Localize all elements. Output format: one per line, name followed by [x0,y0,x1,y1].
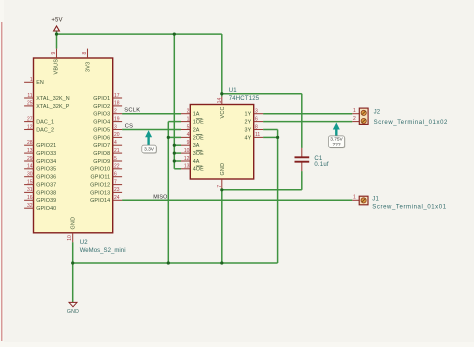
svg-text:4OE: 4OE [193,167,204,173]
svg-text:2: 2 [353,116,356,122]
svg-text:13: 13 [184,164,190,170]
svg-text:15: 15 [27,179,33,185]
svg-text:GPIO1: GPIO1 [93,96,110,102]
svg-text:16: 16 [27,195,33,201]
svg-text:GPIO14: GPIO14 [90,198,110,204]
svg-text:3.3V: 3.3V [144,147,155,153]
svg-text:27: 27 [27,116,33,122]
svg-text:30: 30 [27,172,33,178]
svg-text:4A: 4A [193,159,200,165]
svg-text:23: 23 [114,187,120,193]
svg-text:10: 10 [67,235,73,241]
svg-text:GPIO11: GPIO11 [91,175,111,181]
svg-text:7: 7 [217,185,223,188]
svg-text:GPIO36: GPIO36 [36,175,56,181]
svg-text:3.75V: 3.75V [330,137,343,143]
svg-text:VCC: VCC [220,106,226,118]
svg-text:GPIO5: GPIO5 [93,127,110,133]
svg-text:11: 11 [27,93,32,99]
svg-text:GPIO38: GPIO38 [36,190,56,196]
svg-text:1: 1 [353,108,356,114]
svg-text:20: 20 [114,132,120,138]
svg-text:3Y: 3Y [245,127,252,133]
svg-text:6: 6 [114,172,117,178]
svg-text:GPIO8: GPIO8 [93,151,110,157]
svg-text:GND: GND [220,163,226,176]
svg-text:CS: CS [125,123,134,129]
svg-text:XTAL_32K_N: XTAL_32K_N [36,96,70,102]
svg-text:Screw_Terminal_01x02: Screw_Terminal_01x02 [374,120,448,126]
svg-text:GPIO21: GPIO21 [36,143,56,149]
svg-text:EN: EN [36,80,44,86]
svg-text:DAC_1: DAC_1 [36,120,54,126]
svg-text:???: ??? [332,142,340,148]
svg-text:21: 21 [114,148,120,154]
svg-text:31: 31 [27,187,33,193]
svg-text:J2: J2 [374,110,381,116]
svg-text:XTAL_32K_P: XTAL_32K_P [36,104,70,110]
svg-text:+5V: +5V [51,17,62,23]
svg-text:17: 17 [114,93,120,99]
svg-text:GPIO34: GPIO34 [36,159,56,165]
svg-text:14: 14 [217,98,223,104]
svg-text:2Y: 2Y [245,120,252,126]
svg-text:1: 1 [30,77,33,83]
svg-text:9: 9 [187,140,190,146]
svg-text:J1: J1 [372,197,379,203]
svg-text:22: 22 [114,164,120,170]
svg-text:SCLK: SCLK [124,108,140,114]
svg-text:GND: GND [67,309,79,315]
svg-text:0.1uf: 0.1uf [314,162,328,168]
svg-text:14: 14 [27,164,33,170]
svg-text:29: 29 [27,156,33,162]
svg-text:3A: 3A [193,143,200,149]
svg-text:25: 25 [27,101,33,107]
svg-text:GPIO4: GPIO4 [93,120,110,126]
svg-text:13: 13 [27,148,33,154]
svg-text:GPIO6: GPIO6 [93,135,110,141]
svg-text:4Y: 4Y [245,135,252,141]
svg-text:3: 3 [114,124,117,130]
svg-text:GPIO7: GPIO7 [93,143,110,149]
svg-text:6: 6 [255,116,258,122]
svg-text:VBUS: VBUS [54,59,60,75]
svg-text:Screw_Terminal_01x01: Screw_Terminal_01x01 [372,204,446,210]
svg-text:10: 10 [184,148,190,154]
svg-text:4: 4 [114,140,117,146]
svg-text:GPIO9: GPIO9 [93,159,110,165]
svg-text:2: 2 [114,109,117,115]
svg-text:WeMos_S2_mini: WeMos_S2_mini [80,248,126,254]
svg-text:GPIO33: GPIO33 [36,151,56,157]
svg-text:MISO: MISO [153,194,167,200]
svg-text:8: 8 [255,124,258,130]
svg-text:5: 5 [114,156,117,162]
svg-text:C1: C1 [314,156,323,162]
svg-text:2: 2 [187,109,190,115]
svg-text:4: 4 [187,132,190,138]
svg-text:1: 1 [353,195,356,201]
svg-text:28: 28 [27,140,33,146]
svg-text:1Y: 1Y [245,112,252,118]
svg-text:8: 8 [82,52,88,55]
svg-text:19: 19 [114,116,120,122]
svg-text:1: 1 [187,116,190,122]
svg-text:12: 12 [27,124,33,130]
svg-text:GPIO37: GPIO37 [36,183,56,189]
svg-text:11: 11 [255,132,260,138]
svg-text:GPIO13: GPIO13 [90,190,110,196]
svg-text:12: 12 [184,156,190,162]
svg-text:3: 3 [255,109,258,115]
svg-text:18: 18 [114,101,120,107]
svg-text:74HCT125: 74HCT125 [229,96,260,102]
svg-text:32: 32 [27,203,33,209]
svg-text:9: 9 [51,52,57,55]
svg-text:GPIO35: GPIO35 [36,167,56,173]
svg-text:5: 5 [187,124,190,130]
svg-text:GPIO2: GPIO2 [93,104,110,110]
svg-text:U2: U2 [80,240,89,246]
svg-text:GPIO3: GPIO3 [93,112,110,118]
svg-text:GPIO10: GPIO10 [90,167,110,173]
svg-text:GPIO40: GPIO40 [36,206,56,212]
svg-text:DAC_2: DAC_2 [36,127,54,133]
svg-text:GPIO39: GPIO39 [36,198,56,204]
svg-text:GPIO12: GPIO12 [90,183,110,189]
svg-text:2OE: 2OE [193,135,204,141]
svg-text:7: 7 [114,179,117,185]
svg-text:3OE: 3OE [193,151,204,157]
svg-text:1OE: 1OE [193,120,204,126]
svg-text:24: 24 [114,195,120,201]
svg-text:2A: 2A [193,127,200,133]
svg-text:3V3: 3V3 [86,62,92,72]
svg-text:U1: U1 [229,88,238,94]
svg-text:GND: GND [71,217,77,230]
svg-text:1A: 1A [193,112,200,118]
